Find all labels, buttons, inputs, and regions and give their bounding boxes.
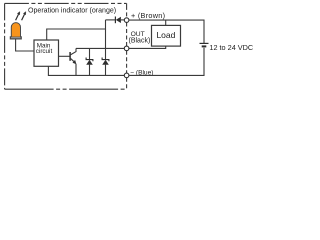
- diode D1 cathode bar: [114, 17, 116, 24]
- transistor Q1 collector: [70, 48, 76, 55]
- wire: external +V rail to battery top: [129, 20, 204, 43]
- wire: emitter stub to 0V rail: [75, 64, 77, 76]
- zener diode ZD2 cathode bar with ticks: [102, 58, 109, 62]
- sensor enclosure dash-dot box: right edge segment above brown terminal: [126, 3, 128, 17]
- zener diode ZD1 bottom stub: [89, 65, 91, 76]
- wire: load bottom stub to OUT wire: [129, 46, 166, 48]
- zener diode ZD2 vertical from +V node crossing OUT wire: [105, 29, 107, 60]
- zener diode ZD2 triangle: [102, 60, 109, 65]
- zener diode ZD1 top stub from OUT wire: [89, 48, 91, 59]
- main circuit box U1: [34, 40, 59, 66]
- wire: external 0V rail to battery bottom: [129, 48, 204, 76]
- sensor enclosure dash-dot box: left edge: [4, 3, 6, 89]
- transistor Q1 base wire from main circuit: [59, 55, 70, 57]
- LED indicator lamp body: [11, 23, 20, 37]
- zener diode ZD1 cathode bar with ticks: [86, 58, 93, 62]
- svg-text:12 to 24 VDC: 12 to 24 VDC: [209, 43, 253, 52]
- wire: load riser from +V rail: [165, 20, 167, 25]
- svg-text:(Black): (Black): [129, 38, 151, 45]
- wire: LED lead down and to main circuit box: [16, 39, 34, 51]
- wire: internal OUT wire from collector to black terminal: [76, 47, 124, 49]
- sensor enclosure dash-dot box: right edge segment between brown and black terminals: [126, 23, 128, 47]
- svg-text:circuit: circuit: [36, 48, 53, 55]
- sensor enclosure dash-dot box: bottom edge: [5, 88, 127, 90]
- svg-text:Operation indicator (orange): Operation indicator (orange): [28, 8, 116, 15]
- wire: diode to brown terminal: [121, 19, 124, 21]
- terminal: brown connector circle: [124, 18, 129, 23]
- LED indicator base tray: [10, 36, 21, 39]
- LED light arrow left: [16, 12, 20, 21]
- zener diode ZD1 triangle: [86, 60, 93, 65]
- load box: [152, 25, 181, 46]
- svg-text:+ (Brown): + (Brown): [131, 11, 165, 20]
- LED light arrow right: [22, 12, 26, 21]
- zener diode ZD2 bottom stub: [105, 65, 107, 76]
- wire: main circuit bottom stub and internal 0V rail: [48, 66, 124, 75]
- sensor enclosure dash-dot box: right edge segment between black and blue terminals: [126, 51, 128, 73]
- wire: Vcc riser from main circuit top to top rail: [47, 20, 106, 40]
- transistor Q1 base bar: [69, 52, 71, 61]
- battery BT1 positive plate: [200, 42, 209, 44]
- terminal: black connector circle: [124, 46, 129, 51]
- wire: top rail into diode: [106, 19, 116, 21]
- terminal: blue connector circle: [124, 73, 129, 78]
- diode D1 triangle: [116, 17, 121, 23]
- battery BT1 negative plate: [202, 45, 207, 47]
- transistor Q1 emitter with arrowhead: [70, 58, 74, 62]
- svg-text:Load: Load: [156, 30, 175, 40]
- sensor enclosure dash-dot box: top edge: [5, 2, 127, 4]
- sensor enclosure dash-dot box: right edge segment below blue terminal: [126, 78, 128, 89]
